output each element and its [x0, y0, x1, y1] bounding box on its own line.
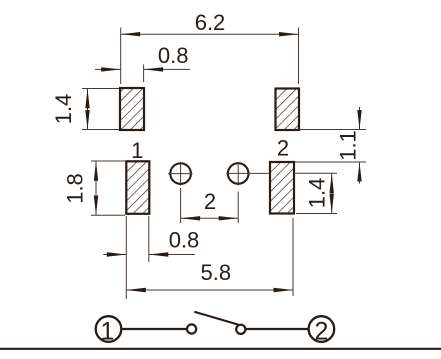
- svg-text:0.8: 0.8: [169, 228, 200, 253]
- dimension 0.8 bottom extension line left: [125, 216, 127, 299]
- svg-text:5.8: 5.8: [201, 260, 232, 285]
- dimension 1.8 extension line top: [91, 160, 125, 162]
- dimension 1.4 left arrow down: [85, 110, 89, 130]
- dimension 1.4 right arrow down: [330, 194, 334, 214]
- dimension 0.8 bottom tail left: [103, 254, 126, 256]
- svg-text:2: 2: [277, 136, 289, 161]
- dimension 2 line: [181, 217, 239, 219]
- pad top-right (hatched): [276, 89, 300, 131]
- dimension 1.8 line: [95, 161, 97, 215]
- crosshair B (right mounting hole): [226, 162, 270, 186]
- dimension 1.8 arrow down: [94, 196, 98, 216]
- dimension 0.8 top tail left: [95, 68, 121, 70]
- contact circle right: [236, 325, 245, 334]
- contact circle left: [187, 324, 196, 333]
- dimension 1.4 right extension line top: [294, 172, 337, 174]
- label 1 (pad 1): [131, 138, 143, 163]
- dimension 1.1 tail below: [359, 162, 361, 184]
- dimension 5.8 arrow left: [126, 288, 146, 292]
- wire right (contact to terminal 2): [246, 328, 308, 330]
- svg-text:1: 1: [131, 138, 143, 163]
- pad 2 (bottom-right hatched): [270, 162, 294, 214]
- dimension 2 extension line right (below crosshair B): [237, 192, 239, 224]
- dimension 1.4 right arrow up: [330, 174, 334, 194]
- dimension 0.8 bottom arrow left-pointing: [149, 252, 169, 256]
- dimension 1.1 arrow down: [357, 110, 361, 130]
- svg-text:0.8: 0.8: [158, 43, 189, 68]
- dimension 0.8 top extension line right: [143, 65, 145, 83]
- dimension 6.2 extension line right: [298, 28, 300, 84]
- dimension 1.4 left line: [87, 89, 89, 130]
- dimension 0.8 top arrow right: [144, 67, 164, 71]
- svg-text:1: 1: [100, 318, 114, 346]
- dimension 6.2 line: [121, 33, 299, 35]
- label 2 (pad 2): [277, 136, 289, 161]
- dimension 0.8 bottom arrow right-pointing: [107, 252, 127, 256]
- svg-text:1.8: 1.8: [63, 173, 88, 204]
- dimension 1.1 tail above: [359, 107, 361, 130]
- dimension 1.1 extension line bottom: [295, 161, 366, 163]
- svg-text:6.2: 6.2: [195, 10, 226, 35]
- svg-text:2: 2: [204, 189, 216, 214]
- terminal circle 1 (schematic): [96, 316, 122, 345]
- dimension 0.8 bottom tail right: [149, 254, 195, 256]
- dimension 0.8 bottom extension line right: [148, 216, 150, 262]
- svg-text:1.4: 1.4: [305, 178, 330, 209]
- dimension 1.4 right extension line bottom: [296, 213, 337, 215]
- pad top-left (hatched): [120, 88, 144, 130]
- dimension 2 arrow left: [181, 216, 201, 220]
- dimension 2 arrow right: [219, 216, 239, 220]
- switch lever: [194, 312, 238, 325]
- dimension 1.8 arrow up: [94, 161, 98, 181]
- crosshair A (left mounting hole): [168, 162, 193, 186]
- svg-text:1.1: 1.1: [336, 130, 361, 161]
- dimension 6.2 extension line left: [120, 28, 122, 84]
- dimension 2 extension line left (below crosshair A): [180, 188, 182, 223]
- svg-text:2: 2: [314, 318, 328, 346]
- dimension 0.8 top tail right: [144, 68, 190, 70]
- dimension 5.8 line: [126, 289, 293, 291]
- pad 1 (bottom-left hatched): [126, 161, 149, 214]
- svg-text:1.4: 1.4: [51, 94, 76, 125]
- dimension 1.4 left extension line bottom: [82, 129, 119, 131]
- dimension 1.4 left extension line top: [82, 88, 119, 90]
- bottom rule: [0, 348, 441, 350]
- dimension 0.8 top arrow left: [101, 67, 121, 71]
- dimension 1.1 arrow up: [357, 162, 361, 182]
- dimension 1.4 right line: [331, 173, 333, 213]
- dimension 5.8 arrow right: [274, 288, 294, 292]
- dimension 5.8 extension line right: [292, 218, 294, 296]
- dimension 6.2 arrow right: [279, 32, 299, 36]
- dimension 1.1 extension line top: [300, 129, 367, 131]
- wire left (terminal 1 to contact): [122, 328, 187, 330]
- dimension 1.8 extension line bottom: [91, 214, 125, 216]
- dimension 6.2 arrow left: [121, 32, 141, 36]
- dimension 1.4 left arrow up: [85, 89, 89, 109]
- terminal circle 2 (schematic): [309, 316, 335, 345]
